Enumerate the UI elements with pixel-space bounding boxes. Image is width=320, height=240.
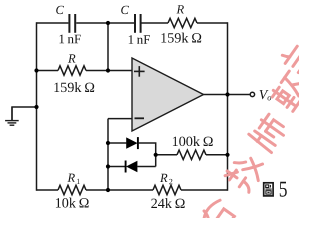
wire diode upper left [108,142,126,144]
label figure CJK tu drawn [264,183,273,196]
resistor R row2 159k [58,66,86,75]
wire bottom left [37,189,59,191]
wire diode lower right [137,166,155,168]
label R top value 159k [161,33,201,43]
label figure number 5 [280,182,287,197]
label 100k value [173,136,213,146]
op-amp U1 [132,58,204,131]
label C1 value 1nF [60,35,81,44]
wire ground tap [12,107,37,120]
wire row2 right [86,70,132,72]
wire bottom mid [86,189,153,191]
wire 100k left [156,154,177,156]
wire bottom right [181,189,228,191]
op-amp minus sign [135,117,145,119]
watermark char 2 (CJK jiao) [224,150,268,194]
label R2 [160,174,173,184]
watermark char 3 (CJK shi) [248,111,289,152]
label R row2 value 159k [54,82,94,92]
resistor R1 10k [58,185,86,194]
watermark char 1 (partial CJK, bottom) [199,196,237,234]
wire R to right rail [197,22,228,24]
resistor R2 24k [153,185,181,194]
wire 100k right [206,154,228,156]
label Vo [260,90,272,100]
wire diode upper right [139,143,156,167]
watermark char 4 (CJK zhen) [270,70,311,111]
ground [5,107,19,125]
diode D2 [126,161,138,173]
terminal Vo circle [250,92,254,96]
label R2 value 24k [151,198,184,208]
wire left rail [36,22,38,190]
wire minus input [108,118,132,120]
label C1 [56,6,64,14]
label R row2 [68,54,76,62]
label C2 [121,6,129,14]
label C2 value 1nF [129,35,150,44]
op-amp plus sign [134,66,145,77]
resistor R top 159k [168,18,197,27]
wire top row [37,22,69,24]
label R1 [67,174,79,184]
node junction dots [34,21,229,192]
wire mid rail upper [107,23,109,71]
diode D1 [126,137,138,149]
wire C1 to C2 [76,22,134,24]
resistor 100k [177,150,206,159]
wire row2 left [37,70,59,72]
wire output [204,94,250,96]
wire right rail [227,22,229,190]
capacitor C1 plates [69,14,75,33]
wire diode lower left [108,166,125,168]
wire mid rail lower [107,119,109,190]
wire C2 to R [141,22,168,24]
watermark char 5 (partial CJK, top right) [279,42,310,72]
capacitor C2 plates [135,14,141,33]
label R1 value 10k [56,198,89,208]
label R top [176,5,184,13]
